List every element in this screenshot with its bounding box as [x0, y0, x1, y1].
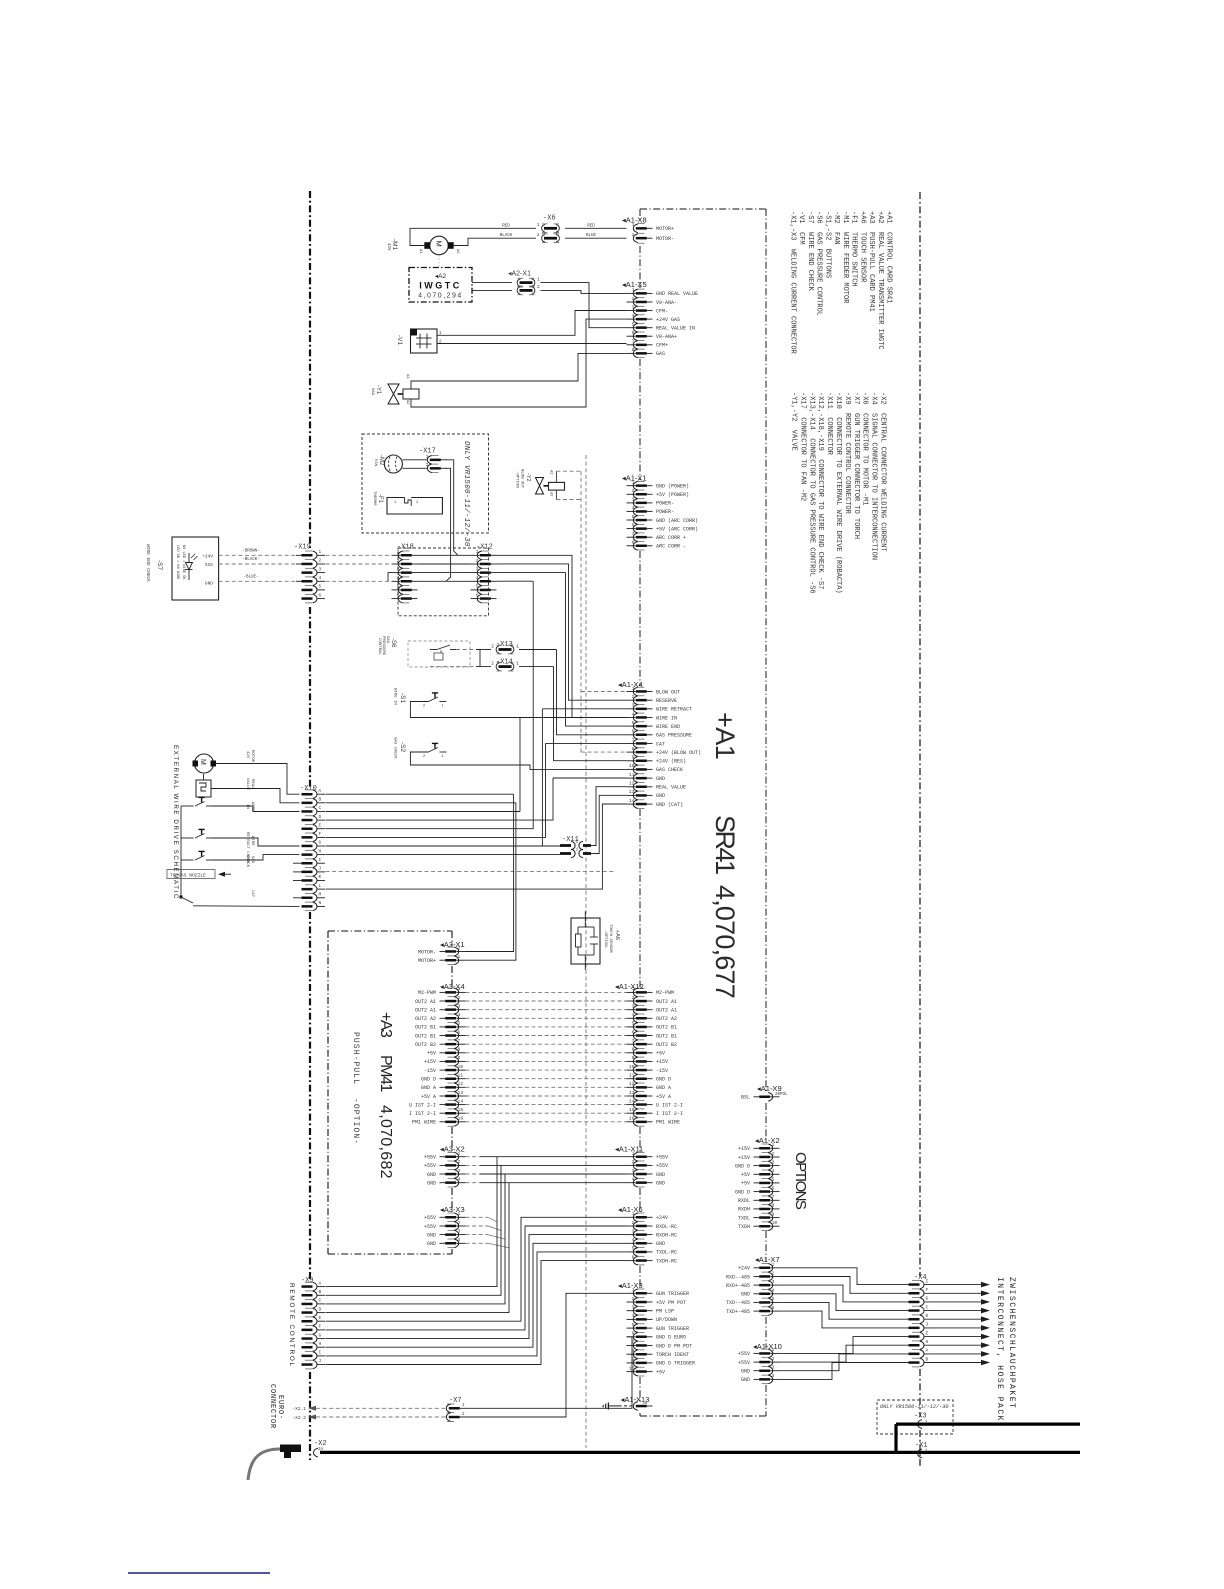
svg-text:M2-PWM: M2-PWM	[418, 990, 436, 996]
svg-text:7: 7	[632, 737, 635, 743]
svg-text:GND D: GND D	[656, 1077, 671, 1083]
svg-text:I: I	[319, 1350, 322, 1356]
svg-text:E: E	[319, 1315, 322, 1321]
svg-text:+5V: +5V	[656, 1051, 665, 1057]
svg-text:1: 1	[576, 847, 579, 852]
svg-text:RXDL-RC: RXDL-RC	[656, 1224, 677, 1230]
svg-text:+A1 CONTROL CARD SR41: +A1 CONTROL CARD SR41	[885, 211, 893, 303]
svg-text:13: 13	[458, 1090, 464, 1096]
svg-text:13: 13	[629, 789, 635, 795]
svg-text:+55V: +55V	[424, 1163, 436, 1169]
svg-text:5: 5	[632, 1322, 635, 1328]
svg-text:3: 3	[458, 1168, 461, 1174]
svg-text:-X2.2: -X2.2	[292, 1415, 306, 1421]
svg-text:◂A3-X4: ◂A3-X4	[440, 982, 465, 991]
svg-text:6: 6	[632, 1029, 635, 1035]
svg-text:◂A2: ◂A2	[435, 273, 447, 280]
svg-text:-X6: -X6	[543, 215, 556, 223]
svg-text:GAS CHECK: GAS CHECK	[656, 767, 683, 773]
svg-text:A: A	[926, 1348, 929, 1354]
svg-text:10: 10	[772, 1220, 778, 1226]
svg-text:◂A3-X1: ◂A3-X1	[440, 940, 465, 949]
svg-text:+24V: +24V	[202, 554, 213, 560]
svg-text:GND A: GND A	[421, 1085, 436, 1091]
svg-text:I IST 2-I: I IST 2-I	[656, 1111, 683, 1117]
svg-text:8: 8	[772, 1203, 775, 1209]
svg-text:3: 3	[632, 497, 635, 503]
svg-text:4: 4	[458, 1237, 461, 1243]
svg-text:4: 4	[772, 1288, 775, 1294]
svg-text:2: 2	[458, 1159, 461, 1165]
svg-text:PM1 WIRE: PM1 WIRE	[656, 1120, 680, 1126]
svg-text:5: 5	[632, 1246, 635, 1252]
svg-text:BLOW OUT: BLOW OUT	[520, 469, 524, 489]
svg-text:A: A	[319, 1280, 322, 1286]
svg-text:GND: GND	[205, 581, 213, 587]
svg-text:11: 11	[629, 1073, 635, 1079]
svg-text:-X17 CONNECTOR TO FAN -M2: -X17 CONNECTOR TO FAN -M2	[798, 392, 806, 501]
svg-text:1: 1	[632, 685, 635, 691]
svg-text:9: 9	[632, 755, 635, 761]
svg-text:IWGTC: IWGTC	[419, 281, 462, 291]
svg-text:2: 2	[537, 232, 540, 238]
svg-text:+A6: +A6	[614, 930, 620, 940]
svg-text:WIRE END CHECK: WIRE END CHECK	[145, 544, 151, 582]
svg-text:6: 6	[632, 330, 635, 336]
svg-text:GND: GND	[656, 793, 665, 799]
svg-text:3: 3	[632, 1228, 635, 1234]
svg-text:14: 14	[458, 1098, 464, 1104]
svg-text:5: 5	[772, 1177, 775, 1183]
svg-text:+15V: +15V	[656, 1059, 668, 1065]
svg-text:THERMO: THERMO	[372, 491, 376, 506]
svg-text:ZWISCHENSCHLAUCHPAKET: ZWISCHENSCHLAUCHPAKET	[1007, 1277, 1016, 1409]
svg-text:1: 1	[476, 549, 479, 555]
svg-text:2: 2	[416, 501, 419, 505]
svg-text:3: 3	[772, 1279, 775, 1285]
svg-text:G: G	[319, 1332, 322, 1338]
svg-text:4: 4	[632, 313, 635, 319]
svg-text:ONLY VR1500-11/-12/-30: ONLY VR1500-11/-12/-30	[880, 1404, 949, 1410]
svg-text:4: 4	[632, 1313, 635, 1319]
svg-text:WIRE RETRACT: WIRE RETRACT	[656, 707, 692, 713]
svg-text:OUT2 A1: OUT2 A1	[656, 999, 677, 1005]
svg-text:2: 2	[632, 232, 635, 238]
svg-text:-Y2: -Y2	[525, 473, 531, 482]
svg-text:-S7 WIRE END CHECK: -S7 WIRE END CHECK	[806, 211, 814, 292]
svg-text:1: 1	[632, 1287, 635, 1293]
svg-text:7: 7	[772, 1194, 775, 1200]
svg-text:+24V (BLOW OUT): +24V (BLOW OUT)	[656, 750, 701, 756]
svg-text:2: 2	[632, 488, 635, 494]
svg-text:2: 2	[458, 1220, 461, 1226]
svg-text:3: 3	[632, 1305, 635, 1311]
svg-text:D: D	[926, 1313, 929, 1319]
svg-text:MOTOR-: MOTOR-	[656, 236, 674, 242]
svg-text:+15V: +15V	[738, 1146, 750, 1152]
svg-text:OUT2 B2: OUT2 B2	[656, 1042, 677, 1048]
svg-text:5: 5	[632, 322, 635, 328]
svg-text:-X2: -X2	[314, 1440, 327, 1448]
svg-text:+55V: +55V	[738, 1351, 750, 1357]
svg-text:3: 3	[632, 703, 635, 709]
svg-text:10: 10	[458, 1064, 464, 1070]
svg-text:11: 11	[629, 772, 635, 778]
svg-text:GND: GND	[427, 1172, 436, 1178]
svg-text:5: 5	[632, 1021, 635, 1027]
svg-text:+5V PM POT: +5V PM POT	[656, 1300, 686, 1306]
svg-text:CFM-: CFM-	[656, 308, 668, 314]
svg-text:A1: A1	[549, 470, 553, 475]
svg-text:-X4 SIGNAL CONNECTOR TO INTER: -X4 SIGNAL CONNECTOR TO INTERCONNECTION	[870, 392, 878, 560]
svg-text:1: 1	[441, 705, 444, 709]
svg-text:FAN: FAN	[373, 459, 377, 467]
svg-text:-V1: -V1	[396, 335, 403, 346]
svg-text:CFM+: CFM+	[656, 343, 668, 349]
svg-text:2: 2	[458, 945, 461, 951]
svg-text:15: 15	[458, 1107, 464, 1113]
svg-text:1: 1	[632, 480, 635, 486]
svg-text:M: M	[199, 759, 206, 765]
svg-text:42V: 42V	[245, 751, 249, 759]
svg-text:-S1,-S2 BUTTONS: -S1,-S2 BUTTONS	[823, 211, 831, 278]
svg-text:OUT2 A1: OUT2 A1	[415, 1008, 436, 1014]
svg-text:OUT2 B2: OUT2 B2	[415, 1042, 436, 1048]
svg-text:I: I	[319, 857, 322, 863]
svg-text:1: 1	[516, 643, 519, 649]
svg-text:D: D	[319, 1306, 322, 1312]
svg-text:MOTOR+: MOTOR+	[656, 226, 674, 232]
svg-text:-OPTION-: -OPTION-	[351, 1098, 360, 1145]
svg-text:V0-ANA+: V0-ANA+	[656, 334, 677, 340]
svg-text:2: 2	[491, 660, 494, 666]
svg-text:2: 2	[632, 1159, 635, 1165]
svg-text:-BLUE-: -BLUE-	[243, 576, 258, 580]
svg-text:7: 7	[458, 1038, 461, 1044]
svg-text:1: 1	[394, 501, 397, 505]
svg-text:+24V: +24V	[656, 1215, 668, 1221]
svg-text:5: 5	[319, 585, 322, 590]
svg-text:5: 5	[476, 584, 479, 590]
svg-text:2A: 2A	[643, 1402, 648, 1406]
svg-text:15: 15	[629, 1107, 635, 1113]
svg-text:GND D TRIGGER: GND D TRIGGER	[656, 1361, 695, 1367]
svg-text:+5V: +5V	[656, 1369, 665, 1375]
svg-text:REAL: REAL	[250, 779, 254, 789]
svg-text:RXDL: RXDL	[738, 1198, 750, 1204]
svg-text:2: 2	[426, 462, 429, 468]
svg-text:-BROWN-: -BROWN-	[242, 550, 260, 554]
svg-text:H: H	[319, 1341, 322, 1347]
svg-text:1: 1	[632, 287, 635, 293]
svg-text:J: J	[319, 866, 322, 872]
svg-text:TXDL-RC: TXDL-RC	[656, 1250, 677, 1256]
svg-text:WIRE END: WIRE END	[656, 724, 680, 730]
svg-text:RED: RED	[587, 224, 595, 228]
svg-text:GND A: GND A	[656, 1085, 671, 1091]
svg-text:2: 2	[476, 558, 479, 564]
svg-text:GND: GND	[656, 776, 665, 782]
svg-text:GND (CAT): GND (CAT)	[656, 802, 683, 808]
svg-text:SIG: SIG	[205, 562, 213, 568]
svg-text:-S2: -S2	[399, 742, 406, 753]
svg-text:SR41: SR41	[710, 815, 740, 874]
svg-text:F: F	[319, 1324, 322, 1330]
svg-text:-X10 CONNECTOR TO EXTERNAL WI: -X10 CONNECTOR TO EXTERNAL WIRE DRIVE (R…	[834, 392, 842, 594]
svg-text:CAT: CAT	[250, 890, 254, 898]
svg-text:H: H	[926, 1339, 929, 1345]
svg-text:-F1 THERMO SWITCH: -F1 THERMO SWITCH	[850, 211, 858, 287]
svg-text:+15V: +15V	[738, 1155, 750, 1161]
svg-text:1: 1	[632, 1151, 635, 1157]
svg-text:OUT2 A2: OUT2 A2	[415, 1016, 436, 1022]
svg-text:PM LSP: PM LSP	[656, 1309, 674, 1315]
svg-text:4: 4	[632, 1237, 635, 1243]
svg-text:ONLY VR1500-11/-12/-30: ONLY VR1500-11/-12/-30	[462, 441, 470, 547]
svg-text:TXD+-485: TXD+-485	[726, 1309, 750, 1315]
svg-text:4: 4	[772, 1373, 775, 1379]
svg-text:6: 6	[632, 1331, 635, 1337]
svg-text:-X12: -X12	[476, 544, 493, 552]
svg-text:1: 1	[632, 986, 635, 992]
svg-text:F: F	[926, 1287, 929, 1293]
svg-text:OUT2 A1: OUT2 A1	[656, 1008, 677, 1014]
svg-text:U IST 2-I: U IST 2-I	[656, 1102, 683, 1108]
svg-text:M: M	[319, 892, 322, 898]
svg-text:-15V: -15V	[424, 1068, 436, 1074]
svg-text:9: 9	[458, 1055, 461, 1061]
svg-text:12: 12	[629, 1081, 635, 1087]
svg-text:-15V: -15V	[656, 1068, 668, 1074]
svg-text:2: 2	[772, 1270, 775, 1276]
svg-text:3: 3	[319, 567, 322, 572]
svg-text:4: 4	[772, 1168, 775, 1174]
svg-text:G: G	[319, 840, 322, 846]
svg-text:V0-ANA-: V0-ANA-	[656, 300, 677, 306]
svg-text:A2: A2	[455, 249, 459, 254]
svg-text:CAT: CAT	[656, 741, 665, 747]
svg-text:N: N	[319, 900, 322, 906]
svg-text:I IST 2-I: I IST 2-I	[409, 1111, 436, 1117]
svg-text:OUT2 B1: OUT2 B1	[415, 1033, 436, 1039]
svg-text:2: 2	[423, 705, 426, 709]
svg-text:3: 3	[458, 1228, 461, 1234]
svg-text:+5V: +5V	[427, 1051, 436, 1057]
svg-text:GAS CHECK: GAS CHECK	[393, 737, 397, 759]
svg-text:CONTROL: CONTROL	[377, 638, 381, 655]
svg-text:GND: GND	[656, 1181, 665, 1187]
svg-text:A1: A1	[405, 374, 409, 379]
svg-text:◂A2-X1: ◂A2-X1	[508, 271, 531, 278]
svg-text:WIRE IN: WIRE IN	[656, 715, 677, 721]
svg-text:OUT2 A1: OUT2 A1	[415, 999, 436, 1005]
svg-text:7: 7	[632, 339, 635, 345]
svg-text:7: 7	[632, 531, 635, 537]
svg-text:1: 1	[441, 755, 444, 759]
svg-text:NO LED = WIRE OK: NO LED = WIRE OK	[181, 545, 185, 580]
svg-text:+55V: +55V	[424, 1224, 436, 1230]
svg-text:M: M	[435, 241, 444, 247]
svg-text:-S6 GAS PRESSURE CONTROL: -S6 GAS PRESSURE CONTROL	[815, 211, 823, 316]
svg-text:-Y1: -Y1	[375, 385, 381, 395]
svg-text:BSL: BSL	[741, 1095, 750, 1101]
svg-text:TXDL: TXDL	[738, 1215, 750, 1221]
svg-text:1: 1	[516, 660, 519, 666]
svg-text:3: 3	[458, 1004, 461, 1010]
svg-text:GUN TRIGGER: GUN TRIGGER	[656, 1291, 689, 1297]
svg-text:+24V: +24V	[738, 1266, 750, 1272]
svg-text:M2-PWM: M2-PWM	[656, 990, 674, 996]
svg-text:2: 2	[423, 755, 426, 759]
svg-text:A1: A1	[418, 249, 422, 254]
svg-text:5: 5	[458, 1021, 461, 1027]
svg-text:6: 6	[458, 1029, 461, 1035]
svg-text:C: C	[319, 805, 322, 811]
svg-text:BLUE: BLUE	[586, 234, 597, 238]
svg-text:6: 6	[632, 522, 635, 528]
svg-text:GND: GND	[427, 1232, 436, 1238]
svg-text:42V: 42V	[386, 243, 390, 251]
svg-text:B: B	[319, 797, 322, 803]
svg-text:2: 2	[772, 1356, 775, 1362]
svg-text:-X18: -X18	[397, 544, 414, 552]
svg-text:-X12,-X18,-X19 CONNECTOR TO W: -X12,-X18,-X19 CONNECTOR TO WIRE END CHE…	[816, 392, 824, 589]
svg-text:E: E	[319, 822, 322, 828]
svg-text:BLOW OUT: BLOW OUT	[656, 689, 680, 695]
svg-text:RXDH: RXDH	[738, 1207, 750, 1213]
svg-text:+15V: +15V	[424, 1059, 436, 1065]
svg-text:POWER-: POWER-	[656, 509, 674, 515]
svg-text:-Y1,-Y2 VALVE: -Y1,-Y2 VALVE	[790, 392, 798, 451]
svg-text:5: 5	[772, 1296, 775, 1302]
svg-text:GND (ARC CORR): GND (ARC CORR)	[656, 518, 698, 524]
svg-text:◂A1-X12: ◂A1-X12	[615, 982, 644, 991]
svg-text:6: 6	[772, 1305, 775, 1311]
svg-text:-X10: -X10	[300, 785, 317, 793]
svg-text:14: 14	[629, 798, 635, 804]
svg-text:1: 1	[458, 1151, 461, 1157]
svg-text:◂A1-X7: ◂A1-X7	[755, 1255, 780, 1264]
svg-text:1: 1	[537, 222, 540, 228]
svg-text:8: 8	[632, 746, 635, 752]
svg-text:1: 1	[632, 222, 635, 228]
svg-text:OUT2 B1: OUT2 B1	[415, 1025, 436, 1031]
svg-text:◂A1-X4: ◂A1-X4	[618, 680, 643, 689]
svg-text:2: 2	[319, 559, 322, 564]
svg-text:B: B	[926, 1356, 929, 1362]
svg-text:U IST 2-I: U IST 2-I	[409, 1102, 436, 1108]
svg-text:GND D: GND D	[421, 1077, 436, 1083]
svg-text:-X2.1: -X2.1	[292, 1406, 306, 1412]
svg-text:-F1: -F1	[377, 494, 383, 504]
svg-text:+55V: +55V	[656, 1155, 668, 1161]
svg-text:11: 11	[458, 1073, 464, 1079]
svg-text:13: 13	[629, 1090, 635, 1096]
svg-text:1: 1	[319, 550, 322, 555]
svg-text:BLACK: BLACK	[500, 234, 513, 238]
svg-text:GUN TRIGGER: GUN TRIGGER	[656, 1326, 689, 1332]
svg-text:5: 5	[632, 720, 635, 726]
svg-text:3: 3	[632, 1004, 635, 1010]
svg-text:+A1: +A1	[710, 712, 740, 759]
svg-text:4,070,677: 4,070,677	[710, 885, 740, 998]
svg-text:MOTOR: MOTOR	[250, 750, 254, 763]
svg-text:GND: GND	[741, 1377, 750, 1383]
svg-text:TXD--485: TXD--485	[726, 1300, 750, 1306]
svg-text:4: 4	[632, 505, 635, 511]
svg-text:4: 4	[476, 575, 479, 581]
svg-text:4: 4	[632, 1012, 635, 1018]
svg-text:OPTIONS: OPTIONS	[792, 1152, 809, 1210]
svg-text:1: 1	[426, 454, 429, 460]
svg-text:1: 1	[772, 1262, 775, 1268]
svg-text:MOTOR+: MOTOR+	[418, 958, 436, 964]
svg-text:RXD+-485: RXD+-485	[726, 1283, 750, 1289]
svg-text:1: 1	[772, 1142, 775, 1148]
svg-text:F: F	[319, 831, 322, 837]
svg-text:D: D	[319, 814, 322, 820]
svg-text:PM1 WIRE: PM1 WIRE	[412, 1120, 436, 1126]
svg-text:GND D PM POT: GND D PM POT	[656, 1343, 692, 1349]
svg-text:1: 1	[458, 954, 461, 960]
svg-text:GND: GND	[656, 1241, 665, 1247]
svg-text:ARC CORR +: ARC CORR +	[656, 535, 686, 541]
svg-text:3: 3	[772, 1159, 775, 1165]
svg-text:-BLACK-: -BLACK-	[242, 558, 260, 562]
svg-text:TO GAS NOZZLE: TO GAS NOZZLE	[170, 873, 206, 879]
svg-text:3: 3	[772, 1365, 775, 1371]
svg-text:-M1 WIRE FEEDER MOTOR: -M1 WIRE FEEDER MOTOR	[841, 211, 849, 304]
svg-text:J: J	[926, 1322, 929, 1328]
svg-text:-X19: -X19	[294, 544, 311, 552]
svg-text:PM41: PM41	[377, 1055, 394, 1092]
svg-text:+55V: +55V	[738, 1360, 750, 1366]
svg-text:GND: GND	[741, 1292, 750, 1298]
svg-text:-X9 REMOTE CONTROL CONNECTOR: -X9 REMOTE CONTROL CONNECTOR	[843, 392, 851, 515]
svg-text:-M1: -M1	[391, 239, 398, 251]
svg-text:I: I	[926, 1278, 929, 1284]
svg-text:E: E	[926, 1330, 929, 1336]
svg-text:6: 6	[476, 592, 479, 598]
svg-text:2: 2	[462, 1413, 465, 1417]
svg-text:4: 4	[458, 1012, 461, 1018]
svg-text:+5V: +5V	[741, 1172, 750, 1178]
svg-text:-X9: -X9	[301, 1277, 314, 1285]
svg-text:GAS: GAS	[370, 388, 374, 396]
svg-text:GAS PRESSURE: GAS PRESSURE	[656, 733, 692, 739]
svg-text:7: 7	[632, 1038, 635, 1044]
svg-text:C: C	[319, 1298, 322, 1304]
svg-text:OUT2 B1: OUT2 B1	[656, 1025, 677, 1031]
svg-text:-X2 CENTRAL CONNECTOR WELDING: -X2 CENTRAL CONNECTOR WELDING CURRENT	[879, 392, 887, 552]
svg-text:+5V (ARC CORR): +5V (ARC CORR)	[656, 526, 698, 532]
svg-text:RESERVE: RESERVE	[656, 698, 677, 704]
svg-text:GND D: GND D	[735, 1189, 750, 1195]
svg-text:1: 1	[772, 1347, 775, 1353]
svg-text:6: 6	[319, 593, 322, 598]
svg-text:9: 9	[772, 1211, 775, 1217]
svg-text:6: 6	[772, 1185, 775, 1191]
svg-text:RED: RED	[502, 224, 510, 228]
svg-text:K: K	[319, 874, 322, 880]
svg-text:3: 3	[632, 304, 635, 310]
svg-text:CONNECTOR: CONNECTOR	[268, 1384, 276, 1429]
svg-text:LED ON = NO WIRE: LED ON = NO WIRE	[175, 545, 179, 580]
svg-text:4,070,682: 4,070,682	[377, 1105, 394, 1179]
svg-text:REMOTE CONTROL: REMOTE CONTROL	[288, 1283, 295, 1368]
svg-text:12: 12	[458, 1081, 464, 1087]
svg-text:2: 2	[458, 995, 461, 1001]
